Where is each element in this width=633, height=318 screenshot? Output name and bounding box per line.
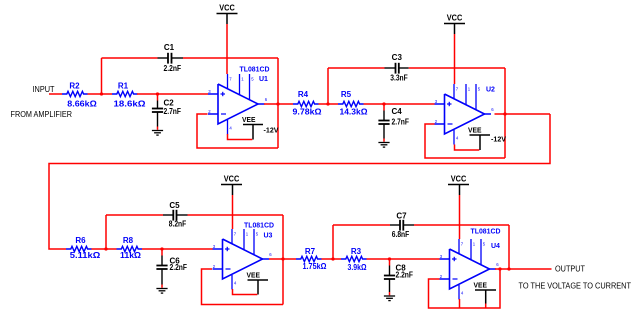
capacitor C3 (3.3nF): [385, 67, 396, 69]
wire (C3/feedback vertical): [504, 68, 506, 158]
wire (C1 left): [102, 57, 158, 59]
wire (C5 tap vertical): [105, 215, 107, 249]
capacitor C4 (2.7nF): [383, 104, 385, 111]
resistor R4 (9.78kΩ): [293, 101, 319, 106]
capacitor C2 (2.7nF): [157, 94, 159, 101]
wire (C7 right): [414, 224, 509, 226]
wire (U4 minus feedback loop): [429, 269, 501, 308]
wire (C3 right): [409, 67, 505, 69]
wire (C3 left): [328, 67, 385, 69]
op-amp U3 (TL081CD): [223, 239, 263, 279]
capacitor C1 (2.2nF): [158, 57, 169, 59]
wire (C3 tap vertical): [327, 68, 329, 104]
svg-text:TL081CD: TL081CD: [244, 223, 274, 230]
svg-text:9.78kΩ: 9.78kΩ: [293, 108, 323, 117]
svg-text:FROM AMPLIFIER: FROM AMPLIFIER: [11, 110, 73, 119]
wire (U2 output to link): [495, 113, 551, 115]
wire (C1/feedback vertical): [277, 58, 279, 148]
svg-text:18.6kΩ: 18.6kΩ: [114, 100, 147, 109]
wire (R2 to R1) with node A junction: [88, 93, 113, 95]
svg-text:C1: C1: [164, 43, 175, 52]
svg-text:U3: U3: [264, 233, 273, 240]
wire (VCC to pin 7 of U2): [454, 34, 456, 84]
wire (C5 right): [188, 214, 284, 216]
svg-text:2.2nF: 2.2nF: [170, 263, 188, 272]
svg-text:TO THE VOLTAGE TO CURRENT: TO THE VOLTAGE TO CURRENT: [519, 282, 632, 291]
svg-text:8.2nF: 8.2nF: [169, 220, 187, 229]
svg-text:2.7nF: 2.7nF: [392, 118, 410, 127]
wire (pin 4 of U2 to VEE): [455, 145, 480, 151]
wire (U2 minus feedback loop): [425, 124, 505, 158]
resistor R6 (5.11kΩ): [66, 246, 92, 251]
wire (U3 minus feedback loop): [202, 269, 284, 305]
svg-text:VEE: VEE: [474, 280, 488, 289]
svg-text:OUTPUT: OUTPUT: [555, 265, 585, 274]
svg-text:R6: R6: [75, 236, 86, 245]
wire (pin 4 of U4 to VEE): [459, 299, 461, 308]
wire (input stub): [49, 93, 62, 95]
ground (C6): [161, 285, 163, 288]
wire (C5 left): [106, 214, 163, 216]
svg-text:C7: C7: [396, 212, 407, 221]
op-amp U1 (TL081CD): [218, 84, 258, 124]
capacitor C5 (8.2nF): [163, 214, 173, 216]
wire (R8 to op-amp) with C6 tap junction: [142, 248, 213, 250]
wire (C7 left): [333, 224, 390, 226]
svg-text:TL081CD: TL081CD: [240, 67, 270, 74]
capacitor C7 (6.8nF): [390, 224, 400, 226]
wire (VCC to pin 7 of U3): [232, 195, 234, 229]
svg-text:2.2nF: 2.2nF: [396, 271, 414, 280]
wire (pin 4 of U1 to VEE): [228, 134, 253, 140]
wire (U4 output): [495, 268, 552, 270]
capacitor C8 (2.2nF): [389, 259, 391, 266]
svg-text:8.66kΩ: 8.66kΩ: [67, 100, 97, 109]
ground (C4): [383, 139, 385, 142]
resistor R5 (14.3kΩ): [338, 101, 364, 106]
resistor R8 (11kΩ): [117, 246, 143, 251]
svg-text:3.3nF: 3.3nF: [390, 74, 408, 83]
wire (node A up to C1): [101, 58, 103, 94]
wire (VCC to pin 7 of U4): [459, 195, 461, 239]
svg-text:U1: U1: [259, 76, 268, 83]
svg-text:R3: R3: [351, 247, 362, 256]
svg-text:U4: U4: [491, 243, 500, 250]
wire (VCC to pin 7 of U1): [226, 24, 228, 74]
wire (U1 output): [264, 103, 293, 105]
resistor R2 (8.66kΩ): [62, 91, 88, 96]
svg-text:TL081CD: TL081CD: [471, 229, 501, 236]
svg-text:-12V: -12V: [491, 135, 506, 144]
svg-text:5.11kΩ: 5.11kΩ: [70, 251, 101, 260]
wire (U3 output): [269, 258, 296, 260]
wire (C5/feedback vertical): [282, 215, 284, 305]
op-amp U4 (TL081CD): [450, 249, 490, 289]
svg-text:6.8nF: 6.8nF: [392, 230, 410, 239]
svg-text:VCC: VCC: [447, 13, 463, 22]
ground (C8): [389, 292, 391, 295]
op-amp U2 (TL081CD): [445, 94, 485, 134]
svg-text:R2: R2: [69, 82, 80, 91]
svg-text:R7: R7: [305, 247, 316, 256]
svg-text:R8: R8: [123, 236, 134, 245]
svg-text:14.3kΩ: 14.3kΩ: [340, 108, 369, 117]
svg-text:R1: R1: [118, 82, 129, 91]
svg-text:VCC: VCC: [451, 174, 467, 183]
svg-text:VCC: VCC: [219, 3, 235, 12]
svg-text:2.2nF: 2.2nF: [164, 64, 182, 73]
resistor R7 (1.75kΩ): [296, 256, 322, 261]
svg-text:INPUT: INPUT: [33, 85, 55, 94]
wire (link from stage 2 down and across to stage 3): [49, 114, 550, 249]
svg-text:R5: R5: [341, 90, 352, 99]
svg-text:11kΩ: 11kΩ: [120, 251, 142, 260]
svg-text:1.75kΩ: 1.75kΩ: [303, 262, 328, 271]
wire (pin 4 of U3 to VEE): [233, 289, 258, 295]
svg-text:VEE: VEE: [247, 270, 261, 279]
svg-text:R4: R4: [298, 90, 309, 99]
svg-text:VEE: VEE: [468, 125, 482, 134]
svg-text:C3: C3: [392, 53, 403, 62]
wire (U1 minus feedback loop): [197, 114, 278, 148]
wire (R7 to R3) with C7 tap junction: [322, 258, 342, 260]
svg-text:VCC: VCC: [224, 174, 240, 183]
wire (R6 to R8) with C5 tap junction: [92, 248, 117, 250]
wire (C7 tap vertical): [332, 225, 334, 259]
wire (R1 to op-amp) with node B junction: [137, 93, 208, 95]
wire (R4 to R5) with C3 tap junction: [319, 103, 339, 105]
resistor R1 (18.6kΩ): [112, 91, 138, 96]
wire (C1 right): [183, 57, 278, 59]
wire (R5 to op-amp) with C4 tap junction: [364, 103, 435, 105]
wire (C7 down to output): [508, 225, 510, 269]
ground (C2): [157, 127, 159, 130]
svg-text:C4: C4: [392, 107, 403, 116]
svg-text:2.7nF: 2.7nF: [164, 107, 182, 116]
svg-text:3.9kΩ: 3.9kΩ: [348, 263, 368, 272]
svg-text:-12V: -12V: [264, 126, 279, 135]
resistor R3 (3.9kΩ): [341, 256, 367, 261]
wire (R3 to op-amp) with C8 tap junction: [367, 258, 440, 260]
svg-text:U2: U2: [486, 87, 495, 94]
capacitor C6 (2.2nF): [161, 249, 163, 256]
svg-text:VEE: VEE: [242, 115, 256, 124]
svg-text:C5: C5: [169, 201, 180, 210]
